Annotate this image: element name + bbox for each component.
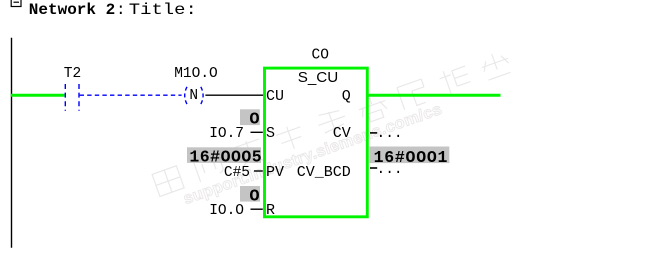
svg-text:Title:: Title: [129,1,197,19]
svg-text:S: S [266,125,275,142]
svg-text:Network 2: Network 2 [29,1,115,19]
svg-text:Q: Q [342,88,351,105]
svg-text:CO: CO [312,48,329,64]
svg-text:CU: CU [266,88,284,105]
monitor value R row [240,186,260,202]
monitor value PV row [187,147,261,163]
svg-text:...: ... [377,162,403,178]
contact T2 [64,84,66,111]
svg-text:PV: PV [266,164,284,181]
svg-text:T2: T2 [64,66,81,82]
svg-text:N: N [189,88,198,104]
svg-text:CV_BCD: CV_BCD [297,164,351,181]
collapse icon [11,0,21,7]
svg-text:...: ... [377,126,403,142]
counter box C0 [265,68,368,217]
monitor value S row [240,109,260,125]
output CV dash [370,132,377,134]
left power rail [11,38,13,248]
svg-text:IO.7: IO.7 [209,126,244,142]
wire Q output (green) [367,94,501,97]
wire rail to T2 (green, power flow) [11,94,65,97]
stub PV [254,170,263,172]
watermark diagonal band [152,49,519,215]
wire T2 to N (blue dashed, RLO 0) [80,94,182,96]
svg-text:16#OOO5: 16#OOO5 [189,148,262,167]
svg-text:C#5: C#5 [224,165,250,181]
svg-text:O: O [249,187,259,206]
svg-text::: : [116,1,126,19]
svg-text:S_CU: S_CU [298,69,339,86]
monitor value CV_BCD [369,147,449,164]
edge element (N) [185,87,187,104]
output CV_BCD dash [370,167,377,169]
svg-text:CV: CV [333,125,351,142]
svg-text:IO.O: IO.O [209,203,244,219]
stub R [251,208,263,210]
svg-text:M1O.O: M1O.O [174,66,218,82]
wire N to CU (black) [205,94,264,96]
stub S [251,131,263,133]
svg-text:O: O [249,111,259,130]
svg-text:R: R [266,202,275,219]
